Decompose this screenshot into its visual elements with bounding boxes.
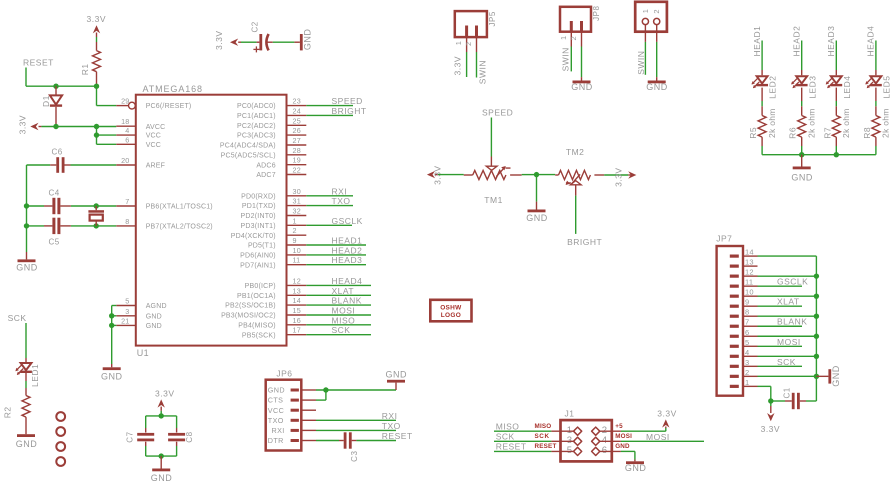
svg-text:1: 1: [454, 41, 463, 46]
svg-text:SPEED: SPEED: [482, 107, 513, 117]
wire JP7 pin 4 to GND bus: [758, 355, 817, 357]
svg-text:MISO: MISO: [535, 423, 552, 430]
wire AGND to GND rail: [112, 306, 117, 365]
svg-text:HEAD4: HEAD4: [866, 26, 876, 57]
svg-text:11: 11: [293, 256, 301, 265]
svg-text:GND: GND: [303, 29, 313, 51]
svg-text:PD5(T1): PD5(T1): [248, 243, 276, 250]
net label TXO (JP6): [382, 421, 401, 431]
svg-text:TM2: TM2: [566, 147, 585, 157]
svg-text:PC2(ADC2): PC2(ADC2): [237, 123, 276, 130]
pin name SCK (J1 pin3): [535, 433, 550, 440]
junction GND pin3: [109, 313, 114, 318]
svg-text:PB5(SCK): PB5(SCK): [242, 332, 276, 339]
svg-text:XLAT: XLAT: [777, 297, 800, 307]
svg-text:GND: GND: [151, 473, 173, 483]
junction RESET/R1: [94, 84, 99, 89]
junction GND/CTS: [323, 387, 328, 392]
svg-text:6: 6: [125, 135, 129, 144]
svg-text:SCK: SCK: [535, 433, 550, 440]
wire LED4 to R7: [835, 88, 837, 116]
svg-text:LED5: LED5: [882, 76, 892, 99]
wire C6 to pin 20: [71, 164, 117, 166]
wire C2 to GND: [273, 41, 295, 43]
LED LED5: [865, 76, 891, 99]
svg-text:9: 9: [293, 236, 297, 245]
net label BLANK (JP7): [777, 317, 807, 327]
svg-text:3.3V: 3.3V: [453, 56, 463, 76]
svg-text:JP8: JP8: [592, 5, 601, 20]
wire LED1 to R2: [25, 373, 27, 396]
wire LED5 to R8: [875, 88, 877, 116]
net label RXI: [332, 186, 348, 196]
svg-text:18: 18: [121, 117, 129, 126]
svg-text:3: 3: [125, 307, 129, 316]
svg-text:ADC7: ADC7: [256, 172, 275, 179]
wire net TXO (pin 31): [306, 205, 353, 207]
connector JP8: [559, 5, 601, 46]
wire JP8 pin1 (SWIN): [570, 47, 572, 72]
net label SWIN (JP5 pin2): [478, 60, 488, 84]
svg-text:21: 21: [121, 316, 129, 325]
wire VCC branch vertical: [96, 127, 98, 145]
svg-text:C2: C2: [251, 21, 260, 32]
ground GND (LED1): [16, 417, 38, 449]
supply 3.3V (TM1 left): [427, 165, 443, 185]
wire JP7 pin 14 to bus top: [758, 255, 817, 257]
junction TM1/TM2/GND: [534, 172, 539, 177]
net label HEAD3: [332, 255, 363, 265]
connector JP7: [716, 234, 757, 396]
svg-text:PB2(SS/OC1B): PB2(SS/OC1B): [225, 303, 276, 310]
junction crystal bottom: [94, 223, 99, 228]
LED LED4: [826, 76, 852, 99]
svg-text:20: 20: [121, 156, 129, 165]
svg-text:LOGO: LOGO: [441, 312, 461, 319]
svg-text:C1: C1: [782, 387, 791, 398]
wire C4 to crystal: [71, 205, 116, 207]
op-amp U1 ATMEGA168 IC body and pins: [116, 84, 306, 358]
svg-text:GND: GND: [146, 323, 162, 330]
wire junction down: [536, 175, 538, 202]
svg-text:J1: J1: [565, 408, 575, 418]
capacitor C5: [44, 218, 71, 247]
wire CTS up to GND net: [316, 390, 326, 400]
svg-text:PC3(ADC3): PC3(ADC3): [237, 133, 276, 140]
svg-text:SPEED: SPEED: [332, 96, 363, 106]
wire TM1 to junction: [522, 174, 537, 176]
svg-text:GND: GND: [571, 82, 593, 92]
resistor R6 2k ohm: [788, 108, 817, 138]
svg-text:4: 4: [125, 126, 129, 135]
svg-text:1: 1: [641, 9, 650, 14]
svg-text:RESET: RESET: [535, 443, 557, 450]
svg-text:AVCC: AVCC: [146, 124, 166, 131]
svg-text:2: 2: [745, 368, 749, 377]
wire SPEED to TM1 wiper: [490, 118, 492, 167]
wire net MISO (J1 left): [494, 430, 575, 432]
pin name GND (J1 pin6): [615, 443, 630, 450]
svg-text:12: 12: [293, 276, 301, 285]
svg-text:10: 10: [745, 288, 754, 297]
svg-text:30: 30: [293, 187, 301, 196]
junction GND pin21: [109, 323, 114, 328]
svg-text:9: 9: [745, 298, 749, 307]
junction bus pin 10: [814, 293, 819, 298]
svg-text:14: 14: [293, 296, 301, 305]
ground GND (switch): [646, 77, 668, 92]
svg-text:HEAD2: HEAD2: [332, 245, 363, 255]
supply 3.3V (TM2 right): [614, 167, 637, 187]
svg-text:R8: R8: [862, 127, 872, 139]
svg-text:SCK: SCK: [8, 313, 27, 323]
svg-text:7: 7: [125, 197, 129, 206]
capacitor C8: [168, 428, 194, 446]
svg-text:MOSI: MOSI: [332, 306, 356, 316]
mounting hole 1: [56, 412, 65, 421]
svg-text:LED4: LED4: [842, 76, 852, 99]
wire C5 row left: [27, 225, 45, 227]
net label MOSI: [332, 306, 356, 316]
svg-text:PD4(XCK/T0): PD4(XCK/T0): [231, 233, 276, 240]
wire C4 row left: [27, 205, 45, 207]
svg-text:PD3(INT1): PD3(INT1): [241, 223, 276, 230]
svg-text:3.3V: 3.3V: [761, 424, 781, 434]
svg-text:JP6: JP6: [276, 369, 292, 379]
junction RESET/D1: [53, 84, 58, 89]
wire JP7 pin1 to 3.3V: [758, 386, 771, 406]
net label HEAD1: [332, 236, 363, 246]
svg-text:3.3V: 3.3V: [214, 31, 224, 51]
svg-text:RESET: RESET: [382, 431, 413, 441]
wire TM2 to 3.3V: [604, 174, 628, 176]
svg-text:HEAD3: HEAD3: [332, 255, 363, 265]
svg-text:1: 1: [559, 35, 568, 40]
net label HEAD2: [792, 26, 802, 57]
wire HEAD2 to LED3: [801, 41, 803, 76]
svg-text:MISO: MISO: [332, 315, 356, 325]
net label SCK (J1): [496, 432, 515, 442]
svg-text:XLAT: XLAT: [332, 286, 355, 296]
wire net MOSI (pin 15): [306, 314, 371, 316]
svg-text:PB6(XTAL1/TOSC1): PB6(XTAL1/TOSC1): [146, 204, 213, 211]
net label TXO: [332, 196, 351, 206]
wire JP7 pin 10 to GND bus: [758, 295, 817, 297]
diode D1: [41, 86, 62, 126]
wire switch pin1 (SWIN): [644, 42, 646, 75]
svg-text:+5: +5: [615, 423, 623, 430]
svg-text:PC5(ADC5/SCL): PC5(ADC5/SCL): [221, 152, 276, 159]
supply 3.3V (JP7, arrow down): [761, 406, 781, 434]
wire net SCK (pin 17): [306, 334, 371, 336]
wire net MISO (pin 16): [306, 324, 371, 326]
svg-text:HEAD4: HEAD4: [332, 276, 363, 286]
junction C4 row left: [24, 203, 29, 208]
svg-text:HEAD2: HEAD2: [792, 26, 802, 57]
pin name RESET (J1 pin5): [535, 443, 557, 450]
connector JP5: [454, 11, 497, 52]
svg-text:2: 2: [569, 36, 578, 41]
wire R8 to GND bus: [875, 137, 877, 155]
wire net HEAD2 (pin 10): [306, 254, 366, 256]
net label MOSI (JP7): [777, 337, 801, 347]
wire J1 pin2 to 3.3V: [599, 430, 666, 432]
svg-text:2k ohm: 2k ohm: [806, 108, 816, 138]
svg-text:3.3V: 3.3V: [18, 115, 28, 135]
net label GSCLK (JP7): [777, 277, 808, 287]
svg-text:SCK: SCK: [332, 325, 351, 335]
wire R1 junction to pin29: [97, 86, 117, 105]
svg-text:TM1: TM1: [484, 195, 503, 205]
svg-text:R6: R6: [788, 127, 798, 139]
junction rail/VCC branch: [94, 124, 99, 129]
svg-text:C5: C5: [49, 238, 60, 247]
svg-text:JP7: JP7: [716, 234, 732, 244]
svg-text:PB1(OC1A): PB1(OC1A): [237, 293, 276, 300]
capacitor C2 (polarized): [251, 21, 273, 52]
net label MISO (J1): [496, 421, 520, 431]
crystal Q1: [88, 206, 104, 226]
svg-text:CTS: CTS: [268, 396, 284, 405]
capacitor C1: [771, 387, 806, 409]
svg-text:PC6(/RESET): PC6(/RESET): [146, 103, 192, 110]
svg-text:GND: GND: [386, 369, 408, 379]
svg-text:LED3: LED3: [807, 76, 817, 99]
wire net XLAT (pin 13): [306, 294, 371, 296]
svg-text:5: 5: [745, 338, 749, 347]
net label SPEED: [332, 96, 363, 106]
svg-text:GSCLK: GSCLK: [332, 216, 363, 226]
svg-text:C6: C6: [52, 148, 63, 157]
svg-text:PD0(RXD): PD0(RXD): [241, 193, 276, 200]
svg-text:C7: C7: [125, 431, 134, 442]
svg-text:R7: R7: [822, 127, 832, 139]
junction bus/LED3: [799, 152, 804, 157]
svg-text:PB0(ICP): PB0(ICP): [245, 283, 276, 290]
pin name MISO (J1 pin1): [535, 423, 552, 430]
wire net SCK (J1 left): [494, 440, 575, 442]
svg-text:8: 8: [125, 217, 129, 226]
svg-text:1: 1: [745, 378, 749, 387]
svg-text:2k ohm: 2k ohm: [767, 108, 777, 138]
net label HEAD3: [826, 26, 836, 57]
svg-text:26: 26: [293, 126, 301, 135]
svg-text:GSCLK: GSCLK: [777, 277, 808, 287]
svg-text:VCC: VCC: [146, 142, 161, 149]
svg-text:RXI: RXI: [382, 411, 398, 421]
supply 3.3V (C2 left): [214, 31, 241, 51]
svg-text:2: 2: [464, 41, 473, 46]
supply 3.3V (C7/C8): [155, 388, 175, 416]
junction bus pin 12: [814, 273, 819, 278]
net label MISO: [332, 315, 356, 325]
svg-text:GND: GND: [791, 172, 813, 182]
svg-text:RESET: RESET: [23, 58, 54, 68]
wire C1 to bus: [806, 400, 816, 402]
capacitor C4: [44, 189, 71, 215]
net label HEAD2: [332, 245, 363, 255]
svg-text:ADC6: ADC6: [256, 162, 275, 169]
net label XLAT (JP7): [777, 297, 800, 307]
wire JP6 GND row: [316, 389, 396, 391]
wire SCK to LED1: [25, 323, 27, 363]
wire JP7 GND bus vertical: [815, 256, 817, 401]
svg-text:GND: GND: [526, 213, 548, 223]
net label SCK (JP7): [777, 357, 796, 367]
junction bus pin 2: [814, 374, 819, 379]
svg-text:RXI: RXI: [272, 426, 285, 435]
svg-text:BRIGHT: BRIGHT: [567, 237, 602, 247]
svg-text:VCC: VCC: [268, 406, 284, 415]
wire to pin 6: [97, 143, 117, 145]
wire C3 to RESET: [356, 440, 396, 442]
svg-text:SWIN: SWIN: [636, 51, 646, 75]
svg-text:HEAD1: HEAD1: [752, 26, 762, 57]
svg-text:PB4(MISO): PB4(MISO): [238, 322, 276, 329]
net label RESET (J1): [496, 442, 527, 452]
svg-text:GND: GND: [16, 263, 38, 273]
wire RESET vertical: [25, 68, 27, 87]
svg-text:PC4(ADC4/SDA): PC4(ADC4/SDA): [220, 143, 276, 150]
svg-text:15: 15: [293, 306, 301, 315]
ground GND (JP8): [571, 77, 593, 92]
svg-text:16: 16: [293, 316, 301, 325]
wire JP5 pin1 (3.3V): [466, 52, 468, 77]
wire net RXI (pin 30): [306, 195, 353, 197]
wire net GSCLK (JP7 pin 11): [758, 285, 803, 287]
wire HEAD1 to LED2: [761, 41, 763, 76]
wire switch pin2 to GND: [656, 42, 658, 77]
svg-text:GND: GND: [831, 365, 841, 387]
svg-text:PC0(ADC0): PC0(ADC0): [237, 103, 276, 110]
svg-text:4: 4: [745, 348, 749, 357]
ground GND (C2 right): [294, 29, 312, 51]
svg-text:PC1(ADC1): PC1(ADC1): [237, 113, 276, 120]
capacitor C7: [125, 428, 154, 446]
svg-text:23: 23: [293, 97, 301, 106]
svg-text:BRIGHT: BRIGHT: [332, 106, 367, 116]
net label HEAD4: [866, 26, 876, 57]
junction bus pin 6: [814, 334, 819, 339]
svg-text:PB3(MOSI/OC2): PB3(MOSI/OC2): [221, 313, 276, 320]
svg-text:R5: R5: [748, 127, 758, 139]
svg-text:MOSI: MOSI: [777, 337, 801, 347]
net label RESET (JP6): [382, 431, 413, 441]
svg-text:8: 8: [745, 308, 749, 317]
wire net HEAD3 (pin 11): [306, 264, 366, 266]
svg-text:3.3V: 3.3V: [87, 14, 107, 24]
mounting hole 4: [56, 457, 65, 466]
svg-text:TXO: TXO: [382, 421, 401, 431]
svg-text:GND: GND: [615, 443, 630, 450]
wire R5 to GND bus: [761, 137, 763, 155]
wire JP6 DTR to C3: [316, 440, 339, 442]
svg-text:BLANK: BLANK: [332, 296, 362, 306]
net label SWIN (switch pin1): [636, 51, 646, 75]
switch connector (round pads): [635, 2, 667, 42]
junction crystal top: [94, 203, 99, 208]
svg-text:2k ohm: 2k ohm: [881, 108, 891, 138]
svg-text:GND: GND: [101, 372, 123, 382]
svg-text:24: 24: [293, 106, 301, 115]
net RESET label: [23, 58, 54, 68]
junction bus pin 8: [814, 314, 819, 319]
net label HEAD1: [752, 26, 762, 57]
wire J1 pin4 (net MOSI): [599, 440, 704, 442]
ground GND (JP6): [386, 369, 408, 390]
svg-text:TXO: TXO: [332, 196, 351, 206]
net label BRIGHT (TM2 wiper): [567, 237, 602, 247]
trimpot TM2: [555, 147, 604, 185]
svg-text:GND: GND: [646, 82, 668, 92]
svg-text:31: 31: [293, 197, 301, 206]
pin name MOSI (J1 pin4): [615, 433, 632, 440]
svg-text:SWIN: SWIN: [478, 60, 488, 84]
svg-text:13: 13: [745, 258, 754, 267]
wire LED GND bus: [762, 154, 876, 156]
svg-text:JP5: JP5: [488, 11, 497, 26]
wire net HEAD1 (pin 9): [306, 244, 366, 246]
wire net RESET (J1 left): [494, 450, 575, 452]
capacitor C3: [339, 432, 359, 462]
svg-text:25: 25: [293, 116, 301, 125]
svg-text:GND: GND: [16, 439, 38, 449]
svg-text:LED1: LED1: [30, 364, 40, 387]
wire R6 to GND bus: [801, 137, 803, 155]
svg-text:2k ohm: 2k ohm: [841, 108, 851, 138]
svg-text:MISO: MISO: [496, 421, 520, 431]
svg-text:TXO: TXO: [268, 416, 284, 425]
svg-text:ATMEGA168: ATMEGA168: [143, 84, 203, 94]
wire 3.3V to C2: [241, 41, 257, 43]
svg-text:7: 7: [745, 318, 749, 327]
pin name +5 (J1 pin2): [615, 423, 623, 430]
net label BRIGHT: [332, 106, 367, 116]
svg-text:LED2: LED2: [768, 76, 778, 99]
svg-text:HEAD3: HEAD3: [826, 26, 836, 57]
svg-text:DTR: DTR: [268, 436, 284, 445]
svg-text:OSHW: OSHW: [440, 305, 462, 312]
wire LED3 to R6: [801, 88, 803, 116]
net label MOSI (J1): [646, 432, 670, 442]
wire JP5 pin2 (SWIN): [476, 52, 478, 78]
wire LED2 to R5: [761, 88, 763, 116]
svg-text:AREF: AREF: [146, 163, 165, 170]
svg-text:3: 3: [745, 358, 749, 367]
ground GND (C cluster): [16, 259, 38, 272]
svg-text:SCK: SCK: [496, 432, 515, 442]
wire HEAD3 to LED4: [835, 41, 837, 76]
svg-text:GND: GND: [625, 463, 647, 473]
wire TM2 wiper to BRIGHT: [575, 185, 577, 234]
net label SPEED (TM1 wiper): [482, 107, 513, 117]
capacitor C6: [50, 148, 70, 173]
wire net MOSI (JP7 pin 5): [758, 345, 803, 347]
LED LED2: [752, 76, 778, 99]
junction C7/C8 top: [159, 413, 164, 418]
svg-text:RXI: RXI: [332, 186, 348, 196]
LED LED3: [791, 76, 817, 99]
ground GND (under U1): [101, 364, 123, 382]
supply 3.3V (left arrow on AVCC rail): [18, 115, 42, 135]
svg-text:12: 12: [745, 268, 754, 277]
net label BLANK: [332, 296, 362, 306]
wire to pin 4: [97, 134, 117, 136]
svg-text:3.3V: 3.3V: [657, 409, 677, 419]
wire JP7 pin 2 to GND bus: [758, 375, 817, 377]
svg-text:C3: C3: [350, 451, 359, 462]
svg-text:11: 11: [745, 278, 753, 287]
